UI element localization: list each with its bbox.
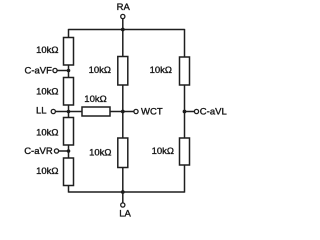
resistor R9 10kΩ horizontal [82, 107, 110, 116]
wire LL node to R9 horizontal resistor [69, 111, 83, 113]
wire right column bottom segment [184, 165, 186, 193]
wire WCT tap [123, 111, 134, 113]
resistor R6 10kΩ middle bottom [118, 138, 128, 168]
svg-text:LL: LL [36, 105, 47, 116]
wire RA terminal to top bus [122, 18, 124, 29]
wire C-aVF tap [57, 70, 69, 72]
resistor R4 10kΩ [64, 158, 74, 186]
terminal C-aVL [194, 109, 198, 113]
svg-text:10kΩ: 10kΩ [89, 65, 111, 76]
terminal LA [121, 203, 125, 207]
wire R2 to R3 segment [68, 105, 70, 118]
wire R3 to R4 segment [68, 145, 70, 159]
svg-text:10kΩ: 10kΩ [150, 65, 172, 76]
junction bottom bus / middle column [121, 190, 125, 194]
resistor R3 10kΩ [64, 118, 74, 146]
svg-text:RA: RA [117, 2, 131, 13]
svg-text:WCT: WCT [141, 106, 163, 117]
junction LL node [67, 110, 71, 114]
svg-text:10kΩ: 10kΩ [36, 128, 58, 139]
resistor R5 10kΩ middle top [118, 57, 128, 86]
junction top bus / middle column [121, 28, 125, 32]
wire middle column bottom segment [122, 168, 124, 193]
wire LA terminal to bottom bus [122, 192, 124, 203]
svg-text:10kΩ: 10kΩ [36, 166, 58, 177]
wire right column R7 to R8 segment [184, 85, 186, 139]
resistor R2 10kΩ [64, 78, 74, 106]
wire right column top segment [184, 29, 186, 58]
wire middle column top segment [122, 30, 124, 58]
svg-text:C-aVF: C-aVF [25, 66, 53, 77]
svg-text:10kΩ: 10kΩ [89, 148, 111, 159]
junction C-aVF node [67, 69, 71, 73]
terminal C-aVR [54, 149, 58, 153]
resistor R8 10kΩ right bottom [180, 138, 190, 165]
junction WCT node [121, 110, 125, 114]
svg-text:LA: LA [119, 208, 131, 219]
terminal WCT [134, 109, 138, 113]
wire left column bottom segment [68, 186, 70, 193]
wire left column top segment [68, 29, 70, 38]
resistor R7 10kΩ right top [180, 57, 190, 85]
wire middle column R5 to R6 segment [122, 85, 124, 139]
wire C-aVL tap [185, 111, 195, 113]
terminal LL [51, 109, 55, 113]
svg-text:10kΩ: 10kΩ [84, 94, 106, 105]
wire LL tap [55, 111, 68, 113]
wire C-aVR tap [59, 150, 69, 152]
terminal RA [121, 14, 125, 18]
wire R9 to WCT junction [110, 111, 123, 113]
wire R1 to R2 segment [68, 65, 70, 78]
svg-text:C-aVR: C-aVR [24, 146, 53, 157]
svg-text:10kΩ: 10kΩ [152, 146, 174, 157]
resistor R1 10kΩ [64, 38, 74, 66]
wire top bus [69, 29, 185, 31]
terminal C-aVF [53, 68, 57, 72]
svg-text:10kΩ: 10kΩ [36, 45, 58, 56]
junction C-aVL node [183, 110, 187, 114]
wire bottom bus [69, 191, 185, 193]
junction C-aVR node [67, 149, 71, 153]
svg-text:10kΩ: 10kΩ [36, 87, 58, 98]
svg-text:C-aVL: C-aVL [200, 107, 227, 118]
